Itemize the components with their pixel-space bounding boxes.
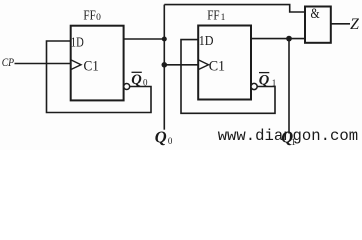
svg-text:Q: Q [131,72,142,88]
svg-text:0: 0 [143,78,148,88]
svg-text:Q: Q [155,128,167,147]
svg-text:Q: Q [259,72,270,88]
svg-text:1: 1 [272,78,277,88]
svg-text:1D: 1D [199,34,214,49]
svg-text:1: 1 [221,13,226,23]
svg-text:www.diangon.com: www.diangon.com [218,127,358,145]
svg-text:0: 0 [168,136,173,146]
svg-text:CP: CP [2,55,15,69]
svg-text:C1: C1 [84,58,99,74]
svg-text:1D: 1D [71,36,84,51]
svg-text:Z: Z [350,16,359,33]
svg-text:FF: FF [83,9,96,24]
svg-text:0: 0 [96,13,101,23]
svg-text:FF: FF [207,9,220,24]
svg-text:C1: C1 [209,59,225,75]
svg-text:&: & [311,6,321,22]
